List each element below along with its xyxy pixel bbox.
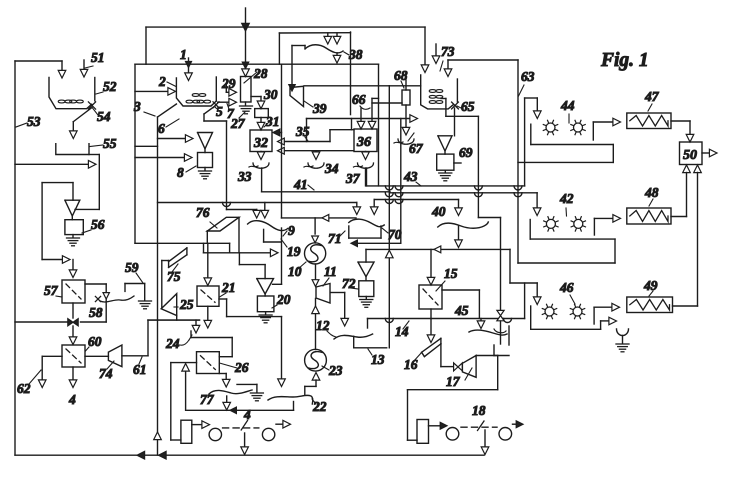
label 17 bbox=[446, 368, 472, 389]
wire branch y146 bbox=[135, 145, 158, 147]
svg-text:9: 9 bbox=[288, 223, 295, 238]
svg-text:23: 23 bbox=[328, 363, 343, 378]
label 62 bbox=[17, 370, 41, 396]
label 31 bbox=[264, 114, 280, 129]
ground under 8 bbox=[199, 168, 212, 179]
label 59 bbox=[125, 260, 143, 283]
svg-text:67: 67 bbox=[409, 141, 424, 156]
label 52 bbox=[96, 79, 117, 94]
svg-text:63: 63 bbox=[521, 69, 535, 84]
wire pump10 to turbine bbox=[312, 264, 319, 287]
wire into valve bbox=[15, 303, 73, 322]
svg-text:4: 4 bbox=[68, 392, 76, 407]
svg-text:34: 34 bbox=[324, 161, 339, 176]
label 29 bbox=[221, 76, 236, 91]
wire shaft out arrow bbox=[276, 420, 291, 428]
wire tray42 outlet bbox=[594, 215, 620, 235]
svg-text:Fig. 1: Fig. 1 bbox=[600, 50, 649, 71]
svg-text:46: 46 bbox=[559, 280, 574, 295]
wire loop to funnel 56 bbox=[42, 183, 73, 264]
wire bar76 to bus bbox=[206, 231, 208, 244]
wire 38 loop bbox=[279, 33, 350, 64]
svg-text:69: 69 bbox=[459, 145, 473, 160]
ground under 20 bbox=[259, 312, 272, 323]
label 15 bbox=[436, 266, 458, 291]
shaft dashed 4 bbox=[223, 421, 259, 431]
label 13 bbox=[368, 349, 385, 367]
wire 28 to 30 bbox=[251, 97, 265, 109]
hump busC x399 bbox=[395, 200, 403, 204]
label 27 bbox=[230, 112, 246, 131]
node 59 hook bbox=[125, 284, 145, 301]
squiggle 22 bbox=[268, 395, 313, 404]
svg-text:47: 47 bbox=[644, 89, 660, 104]
svg-text:25: 25 bbox=[179, 297, 194, 312]
svg-text:56: 56 bbox=[91, 217, 105, 232]
svg-text:2: 2 bbox=[158, 74, 166, 89]
pulley circle c bbox=[446, 428, 459, 441]
wire 35 line lower bbox=[278, 147, 354, 154]
svg-text:17: 17 bbox=[446, 374, 461, 389]
wire arrow into 32 bbox=[273, 129, 282, 136]
wire x389 top corner bbox=[388, 85, 390, 87]
wire line y249 bbox=[366, 246, 510, 262]
label 45 bbox=[454, 303, 469, 318]
svg-text:15: 15 bbox=[444, 266, 458, 281]
label 61 bbox=[133, 357, 147, 377]
hump busA x518 bbox=[514, 186, 522, 190]
svg-text:74: 74 bbox=[99, 366, 113, 381]
wire vertical x378 bbox=[378, 64, 380, 186]
label 12 bbox=[316, 318, 336, 337]
label 1 bbox=[180, 47, 187, 62]
hump busA x478 bbox=[474, 186, 482, 190]
wire 64 outlet to busA bbox=[441, 99, 478, 117]
label 16 bbox=[404, 352, 422, 372]
svg-text:48: 48 bbox=[644, 185, 659, 200]
hump busB x389 bbox=[385, 193, 393, 197]
pulley circle a bbox=[209, 428, 221, 440]
label 35 bbox=[295, 124, 310, 141]
hump busB x478 bbox=[474, 193, 482, 197]
wire shaft drop bbox=[241, 433, 249, 455]
label 34 bbox=[324, 161, 339, 176]
turbine 17 bbox=[462, 356, 476, 378]
wire box under squiggle9 bbox=[264, 229, 282, 242]
triangle 25 bbox=[161, 294, 177, 320]
svg-text:5: 5 bbox=[216, 104, 223, 119]
wire box15 drain bbox=[430, 309, 432, 319]
svg-text:32: 32 bbox=[253, 136, 268, 151]
tank under 45 bbox=[494, 326, 509, 356]
svg-text:52: 52 bbox=[103, 79, 117, 94]
wire branch into funnel 8 bbox=[158, 135, 194, 143]
svg-text:76: 76 bbox=[196, 205, 210, 220]
label 46 bbox=[559, 280, 575, 304]
vessel 2 tank bbox=[176, 77, 216, 106]
hump bus14 x507 bbox=[504, 319, 512, 323]
wire tray46 drain bbox=[601, 317, 617, 325]
svg-text:45: 45 bbox=[454, 303, 469, 318]
label 41 bbox=[293, 177, 314, 192]
squiggle 45 bbox=[469, 330, 507, 335]
squiggle 77 bbox=[209, 390, 252, 394]
hump bus14 x389 bbox=[385, 319, 393, 323]
label 11 bbox=[323, 264, 337, 286]
box 15 bbox=[419, 285, 442, 309]
svg-text:18: 18 bbox=[472, 403, 486, 418]
label 51 bbox=[91, 50, 105, 65]
wire into box 21 bbox=[204, 243, 212, 285]
label 70 bbox=[382, 227, 402, 242]
box 60 bbox=[62, 345, 85, 367]
label 65 bbox=[457, 99, 475, 114]
outlet 34 bbox=[304, 151, 324, 169]
bar 16 bbox=[422, 338, 441, 356]
wire into pump 10 bbox=[312, 218, 319, 243]
label 48 bbox=[644, 185, 659, 206]
svg-text:1: 1 bbox=[180, 47, 187, 62]
svg-text:39: 39 bbox=[312, 101, 327, 116]
label 68 bbox=[394, 68, 408, 88]
svg-text:4: 4 bbox=[243, 407, 251, 422]
svg-text:33: 33 bbox=[237, 169, 252, 184]
squiggle 9 bbox=[248, 221, 288, 231]
wire 77 to y410 bbox=[223, 396, 237, 414]
input 2 triangle bbox=[135, 82, 176, 95]
tank 13 bbox=[354, 336, 387, 348]
svg-text:21: 21 bbox=[221, 280, 236, 295]
turbine 74 bbox=[108, 345, 122, 367]
svg-text:49: 49 bbox=[643, 278, 658, 293]
wire bar16 to valve17 bbox=[441, 344, 454, 367]
ground under 56 bbox=[67, 235, 80, 246]
svg-text:58: 58 bbox=[89, 305, 103, 320]
shaft dashed 18 bbox=[461, 421, 497, 431]
box under squiggle 70 bbox=[349, 226, 381, 238]
label 18 bbox=[472, 403, 486, 418]
tank 55 bbox=[56, 144, 89, 155]
wire into bar16 bbox=[427, 319, 435, 343]
svg-text:59: 59 bbox=[125, 260, 139, 275]
svg-text:51: 51 bbox=[91, 50, 105, 65]
valve 45 bbox=[497, 310, 504, 320]
svg-text:14: 14 bbox=[395, 324, 409, 339]
amp 72 funnel bbox=[358, 262, 374, 281]
box 28 bbox=[241, 77, 252, 103]
wire shaft18 out bbox=[513, 421, 524, 428]
hump busB x518 bbox=[514, 193, 522, 197]
box 68 bbox=[402, 80, 410, 105]
label 63 bbox=[519, 69, 535, 96]
valve 17 inlet bbox=[454, 363, 463, 371]
wire top feed bbox=[242, 8, 250, 77]
svg-text:6: 6 bbox=[158, 121, 165, 136]
heater 47 bbox=[627, 113, 671, 129]
wire vertical x478 bbox=[478, 116, 500, 309]
wire staircase to funnel20 bbox=[239, 253, 265, 279]
wire 61 bbox=[122, 320, 200, 356]
label 3 bbox=[133, 99, 155, 116]
wire main bus bbox=[158, 203, 361, 215]
wire into box15 bbox=[427, 249, 435, 285]
svg-text:71: 71 bbox=[328, 231, 342, 246]
wire to pulley c bbox=[429, 422, 448, 429]
svg-text:41: 41 bbox=[293, 177, 308, 192]
label 38 bbox=[344, 47, 363, 62]
label 25 bbox=[174, 297, 194, 312]
label 22 bbox=[312, 399, 327, 414]
ground 59 bbox=[139, 301, 152, 309]
wire 47 to 50 bbox=[671, 121, 694, 142]
svg-text:24: 24 bbox=[165, 336, 180, 351]
wire tray44 feed bbox=[525, 98, 542, 186]
box 32 bbox=[250, 130, 272, 152]
wire under pump23 bbox=[305, 373, 320, 395]
wire into box26 left bbox=[171, 363, 197, 440]
box 30 bbox=[255, 109, 269, 118]
svg-text:29: 29 bbox=[221, 76, 236, 91]
node 51 feed bbox=[80, 60, 93, 77]
svg-text:10: 10 bbox=[288, 264, 302, 279]
svg-text:30: 30 bbox=[263, 87, 278, 102]
label 71 bbox=[328, 231, 345, 246]
vessel 52 tank bbox=[49, 78, 95, 109]
label 30 bbox=[263, 87, 278, 102]
wire stub arrow 9b bbox=[261, 203, 269, 219]
label 57 bbox=[44, 283, 62, 298]
wire turbine to pump23 bbox=[312, 299, 320, 350]
label 8 bbox=[177, 165, 196, 180]
funnel above 69 bbox=[438, 136, 452, 154]
wire 63 line bbox=[448, 60, 518, 263]
wire bus64 bbox=[135, 63, 379, 65]
wire top bus bbox=[146, 27, 429, 72]
wire 29 input bbox=[226, 85, 236, 97]
wire tank 55 outlet bbox=[75, 155, 99, 210]
wire drain 62 bbox=[38, 356, 62, 387]
wire vessel2 right drain bbox=[204, 106, 227, 121]
squiggle 70 bbox=[349, 219, 384, 227]
label 75 bbox=[167, 264, 181, 284]
label 6 bbox=[158, 119, 179, 136]
label 60 bbox=[86, 334, 102, 351]
hump busC x389 bbox=[385, 200, 393, 204]
wire 60 to turbine 74 bbox=[85, 355, 108, 357]
label 73 bbox=[440, 44, 455, 71]
svg-text:62: 62 bbox=[17, 381, 31, 396]
svg-text:20: 20 bbox=[276, 292, 291, 307]
label 21 bbox=[220, 280, 236, 297]
wire amp39 out bbox=[304, 85, 421, 87]
svg-text:12: 12 bbox=[316, 318, 330, 333]
wire 45 arrow bbox=[477, 319, 485, 329]
wire to pulley bbox=[192, 421, 210, 429]
wire arrows 24 bbox=[192, 306, 211, 333]
label 2 bbox=[158, 74, 166, 89]
svg-text:31: 31 bbox=[265, 114, 280, 129]
label 37 bbox=[345, 171, 361, 186]
svg-text:66: 66 bbox=[352, 92, 366, 107]
pump box left bbox=[171, 420, 192, 443]
svg-text:27: 27 bbox=[230, 116, 246, 131]
tray 46 bbox=[531, 306, 601, 329]
label 24 bbox=[165, 335, 192, 351]
label 69 bbox=[459, 145, 473, 160]
label 9 bbox=[283, 223, 295, 238]
outlet 33 bbox=[249, 152, 269, 169]
svg-text:42: 42 bbox=[559, 191, 574, 206]
heater 48 bbox=[627, 208, 671, 224]
label 10 bbox=[288, 262, 306, 279]
label 33 bbox=[237, 169, 252, 184]
wire 65 to funnel 69 bbox=[454, 108, 456, 136]
svg-text:8: 8 bbox=[177, 165, 184, 180]
label 4 under 60 bbox=[68, 392, 76, 407]
wire 38 to bus bbox=[333, 53, 341, 63]
wire vertical x226 bbox=[226, 121, 228, 210]
svg-text:50: 50 bbox=[683, 148, 697, 163]
box 36 bbox=[354, 129, 377, 152]
label 58 bbox=[89, 305, 103, 320]
wire vertical x350 bbox=[351, 32, 352, 130]
squiggle 12 bbox=[334, 334, 373, 339]
heater 49 bbox=[627, 297, 673, 313]
label 19 bbox=[281, 239, 301, 259]
label 43 bbox=[403, 169, 421, 186]
label 55 bbox=[90, 136, 117, 151]
svg-text:37: 37 bbox=[345, 171, 361, 186]
wire 66 pipe bbox=[372, 102, 402, 104]
box 69 bbox=[437, 154, 461, 170]
wire 37 to busA bbox=[365, 168, 367, 186]
squiggle 38 bbox=[305, 45, 343, 53]
wire tray46 outlet bbox=[594, 303, 619, 324]
label 44 bbox=[560, 98, 575, 123]
label 7 bbox=[227, 104, 235, 122]
wire 24 staircase bbox=[191, 331, 232, 357]
box 72 bbox=[359, 281, 374, 297]
wire 36 inputs bbox=[357, 98, 378, 129]
outlet 67 bbox=[394, 105, 414, 144]
label 23 bbox=[322, 363, 343, 378]
wire 30 to 32 bbox=[257, 118, 265, 131]
funnel above 56 bbox=[65, 200, 80, 220]
box 20 bbox=[257, 296, 274, 312]
wire feed into vessel 52 bbox=[58, 61, 66, 78]
label 49 bbox=[643, 278, 658, 296]
control 58 bbox=[95, 293, 134, 302]
wire 75 to 25 bbox=[161, 261, 163, 309]
valve under 57 bbox=[68, 319, 78, 326]
wire 5 to 28 bbox=[218, 98, 237, 106]
wire shaft18 drop bbox=[481, 430, 489, 455]
wire y118 line bbox=[307, 115, 418, 142]
bar 75 bbox=[162, 248, 187, 268]
svg-text:65: 65 bbox=[461, 99, 475, 114]
wire outlet 4 bbox=[69, 367, 77, 388]
funnel above 20 bbox=[257, 279, 274, 296]
svg-text:44: 44 bbox=[560, 98, 575, 113]
wire 35 line upper bbox=[278, 130, 355, 145]
wire box57 bypass loop bbox=[81, 284, 107, 322]
svg-text:40: 40 bbox=[431, 204, 446, 219]
input 73 bbox=[432, 44, 440, 64]
wire feed right bbox=[444, 60, 452, 77]
wire feed 1 bbox=[185, 58, 193, 81]
wire box26 drain bbox=[219, 374, 230, 388]
wire branch into box 8 bbox=[135, 154, 192, 162]
hump busB x399 bbox=[395, 193, 403, 197]
wire line 243 right bbox=[351, 119, 401, 247]
wire into amp 39 bbox=[289, 46, 305, 92]
wire bus 14 bbox=[368, 319, 525, 329]
box 50 bbox=[680, 142, 703, 165]
wire bottom bus bbox=[15, 451, 484, 459]
wire bus A bbox=[367, 168, 525, 186]
wire y410 line bbox=[187, 402, 294, 411]
wire 48 to 50 bbox=[671, 165, 690, 217]
svg-text:55: 55 bbox=[103, 136, 117, 151]
pump box right bbox=[417, 420, 429, 444]
wire vertical x135 bbox=[134, 64, 136, 243]
tray 42 bbox=[518, 220, 615, 264]
wire tray46 feed bbox=[510, 249, 541, 318]
wire 17 loop to pump box bbox=[408, 356, 498, 441]
wire 41 line bbox=[262, 168, 541, 216]
hump busA x399 bbox=[395, 186, 403, 190]
sun 42b bbox=[571, 217, 585, 231]
wire x389 vertical bbox=[386, 86, 394, 348]
pump 10 bbox=[305, 243, 326, 264]
label 77 bbox=[200, 392, 215, 407]
label 5 bbox=[215, 104, 224, 119]
ground 27 bbox=[240, 102, 253, 114]
label 20 bbox=[272, 292, 291, 308]
svg-text:36: 36 bbox=[356, 135, 371, 150]
wire makeup line bbox=[15, 161, 96, 169]
ground under 69 bbox=[439, 170, 452, 181]
svg-text:35: 35 bbox=[295, 124, 310, 139]
wire into box 57 bbox=[69, 260, 77, 278]
pump 23 bbox=[305, 349, 327, 371]
pulley circle b bbox=[262, 428, 274, 440]
label 66 bbox=[352, 92, 370, 109]
box 56 bbox=[65, 220, 83, 235]
label 53 bbox=[16, 114, 41, 129]
wire turbine right out bbox=[331, 293, 349, 327]
wire bus243 bbox=[135, 243, 278, 256]
sun 44b bbox=[571, 120, 585, 134]
funnel above 8 bbox=[198, 133, 213, 153]
node 5 X bbox=[213, 102, 219, 108]
svg-text:3: 3 bbox=[133, 99, 141, 114]
wire left border loop 53 bbox=[15, 61, 62, 455]
svg-text:54: 54 bbox=[97, 109, 111, 124]
box 8 bbox=[198, 153, 213, 168]
wire 77 ground branch bbox=[237, 384, 263, 400]
bar 76 bbox=[207, 217, 239, 253]
wire valve to box 60 bbox=[69, 326, 77, 345]
squiggle 40 bbox=[438, 222, 489, 228]
label 42 bbox=[559, 191, 574, 216]
drain Y 46 bbox=[616, 329, 629, 352]
label 67 bbox=[408, 133, 424, 156]
wire vertical x156 bbox=[154, 104, 177, 455]
box 57 bbox=[62, 280, 85, 303]
svg-text:70: 70 bbox=[388, 227, 402, 242]
svg-text:77: 77 bbox=[200, 392, 215, 407]
